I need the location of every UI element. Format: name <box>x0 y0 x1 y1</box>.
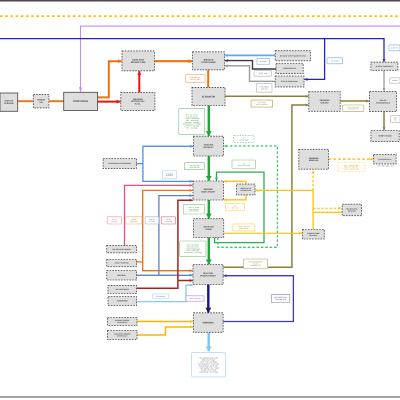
svg-text:QH+B mln: QH+B mln <box>231 207 239 210</box>
box ZASADOWY <box>108 331 138 340</box>
label OSADN <box>244 259 268 269</box>
wire orange branch to przeplywowy <box>143 262 193 271</box>
svg-text:+0.01 mln: +0.01 mln <box>259 72 267 75</box>
wire royal to osadnik <box>143 146 193 163</box>
label G3 <box>180 241 206 256</box>
wire yellow riser to rozkladnia dashed <box>313 207 342 209</box>
box ELEWATOR <box>192 87 225 105</box>
box REAKTOR_PGNB <box>194 219 224 238</box>
wire orange kraty to beztlenowy <box>137 190 193 262</box>
box ZB_RETEN <box>121 92 155 110</box>
svg-text:0.2/4 mln: 0.2/4 mln <box>165 220 172 223</box>
box ANTYSPIENIACZ <box>108 285 137 293</box>
svg-text:BIOGAZU: BIOGAZU <box>309 159 319 162</box>
svg-text:MOCZNIK: MOCZNIK <box>117 274 126 277</box>
box ZB_BEZTLENOWY <box>193 181 224 200</box>
box OSADNIK <box>194 136 224 156</box>
box REAKTOR_PRZEP <box>193 265 223 285</box>
wire green recirc loop dashed <box>218 146 278 247</box>
box ZB_BIOGAZU <box>299 149 329 169</box>
label 10m78 <box>232 160 255 169</box>
label L_pink <box>107 217 121 224</box>
svg-text:48 m PR mln: 48 m PR mln <box>190 166 200 169</box>
label G_big <box>179 108 205 134</box>
wire pink calosciowe to beztlenowy <box>125 185 193 245</box>
wire green recirc loop solid <box>215 172 264 243</box>
label wariant <box>390 78 400 83</box>
top border bar <box>0 0 400 2</box>
wire maroon branch to przeplywowy <box>178 280 193 282</box>
svg-text:KOGENERACJA: KOGENERACJA <box>378 158 392 161</box>
wire orange dzialania to biezace <box>154 60 192 62</box>
box KOGENERACJA <box>374 155 397 164</box>
label WU50 <box>186 296 204 301</box>
svg-text:11.3 mln: 11.3 mln <box>331 59 338 62</box>
label ogrzew <box>338 163 365 172</box>
svg-text:8.4 mln: 8.4 mln <box>260 60 266 63</box>
svg-text:POMPOWNIA: POMPOWNIA <box>73 100 89 103</box>
box WIROWKI <box>193 313 223 333</box>
box BIEZACE <box>193 52 225 70</box>
svg-text:BEZTLENOWY: BEZTLENOWY <box>201 190 216 193</box>
box POMIAR <box>33 94 49 108</box>
svg-text:PRZEPŁYWOWY: PRZEPŁYWOWY <box>200 274 217 277</box>
wire sky wirowki down <box>207 332 209 351</box>
wire yellow pgnb to odsiarczanie <box>224 232 302 234</box>
wire orange pompownia to dzialania <box>98 61 122 97</box>
label 11.3mln <box>327 58 343 64</box>
box CALOSCIOWE <box>107 246 137 253</box>
label ECP_G2 <box>184 204 205 214</box>
box INSTALACJA <box>237 184 256 195</box>
label L_red <box>161 217 175 224</box>
box ZB_ORLOW <box>309 92 340 112</box>
wire royal to beztlenowy <box>143 164 193 182</box>
wire sky powietrze to przeplywowy <box>137 285 193 302</box>
wire yellow instalacja to beztlenowy top <box>224 181 246 184</box>
label GW850 <box>186 74 205 82</box>
svg-text:RETENCYJNE: RETENCYJNE <box>131 61 146 64</box>
bottom border rule <box>0 396 400 398</box>
svg-text:STACJA POMPOWA 1: STACJA POMPOWA 1 <box>281 80 298 83</box>
wire green main beztlenowy to pgnb <box>208 200 210 218</box>
wire blue branch to SP1 <box>304 39 324 80</box>
wire yellow riser to ekogaz dashed <box>312 170 314 190</box>
svg-text:10.05 mln: 10.05 mln <box>391 46 398 49</box>
label JAK4874 <box>185 163 205 170</box>
svg-text:11.3 mln: 11.3 mln <box>261 87 268 90</box>
svg-text:10m 78 203 045: 10m 78 203 045 <box>238 164 250 167</box>
label +0.01mln <box>254 71 272 77</box>
box KANALIZACJA <box>276 64 303 74</box>
svg-text:WC każdych: WC każdych <box>156 295 166 298</box>
svg-text:wariant: wariant <box>392 79 398 82</box>
label 100QHB <box>226 203 245 210</box>
box ROZKLADNIA <box>342 204 361 216</box>
wire red pompownia to zbiornik ret <box>98 101 121 103</box>
wire yellow riser to rozkladnia solid <box>313 211 342 213</box>
box UTRZ_RUCHU <box>275 51 310 61</box>
label HSC <box>272 294 290 302</box>
svg-text:POWIETRZE: POWIETRZE <box>117 300 128 303</box>
wire green main elewator to osadnik <box>208 106 210 136</box>
svg-text:CHEMII PŁUK: CHEMII PŁUK <box>240 189 252 192</box>
label sky_big <box>192 353 226 377</box>
svg-text:chlorametal + do 70 mg/l: chlorametal + do 70 mg/l <box>199 370 218 373</box>
wire global yellow dashed rail <box>0 15 400 17</box>
svg-text:BIOGAZU: BIOGAZU <box>309 234 318 237</box>
svg-text:KANALIZACJA: KANALIZACJA <box>283 67 296 70</box>
label L_blue <box>145 217 159 224</box>
wire tan uklad to pompy <box>383 112 385 131</box>
wire royal wspolpraca stub <box>136 163 143 165</box>
box POMPOWNIA <box>64 92 98 110</box>
svg-text:ANTYSPIENIACZ: ANTYSPIENIACZ <box>115 288 129 291</box>
box KWASNY <box>108 318 138 326</box>
box POWIETRZE <box>108 297 137 306</box>
svg-text:1000 mln: 1000 mln <box>130 220 137 223</box>
svg-text:PGNB: PGNB <box>206 228 213 231</box>
label STUDIA <box>162 171 176 179</box>
label 2m2m <box>233 136 254 143</box>
label 16mKCC <box>343 105 364 111</box>
wire maroon antyspieniacz riser <box>137 200 193 288</box>
box KRATY <box>107 260 137 267</box>
svg-text:ŚCIEKÓW: ŚCIEKÓW <box>4 102 14 105</box>
box SP1 <box>275 76 304 87</box>
wire yellow instalacja to beztlenowy bottom <box>224 195 246 200</box>
label WK2mln <box>391 116 400 123</box>
box SP2 <box>371 62 398 70</box>
box ODSIARCZANIE <box>302 230 324 240</box>
wire gray sp1 to biezace <box>225 66 276 82</box>
svg-text:POMPY OSADU: POMPY OSADU <box>378 135 392 138</box>
wire steel mocznik to przeplywowy <box>137 274 193 276</box>
box POMPY_OSADU <box>371 131 399 142</box>
svg-text:KRATY POKRYW: KRATY POKRYW <box>115 262 129 265</box>
box DZIALANIA <box>122 51 154 71</box>
label IT_ELEWAT <box>256 83 272 92</box>
wire green main pgnb to przeplywowy <box>208 238 210 265</box>
wire tan orlow to uklad <box>340 100 369 102</box>
svg-text:ELEWATOR: ELEWATOR <box>202 95 216 98</box>
wire gray sp2 to uklad <box>383 70 385 91</box>
svg-text:UM: UM <box>40 101 43 104</box>
svg-text:WSTĘPNY: WSTĘPNY <box>203 146 214 149</box>
svg-text:BIOGAZU: BIOGAZU <box>348 210 357 213</box>
svg-text:100 mln: 100 mln <box>111 220 117 223</box>
wire orange inflow 2 <box>49 100 64 102</box>
wire navy wirowki to przeplywowy <box>223 276 293 322</box>
svg-text:CAŁOŚCIOWE AWARIE: CAŁOŚCIOWE AWARIE <box>112 248 132 251</box>
wire dark kanalizacja to biezace <box>225 61 276 69</box>
box WSPOLPRACA <box>103 159 136 169</box>
box DOPLYW <box>0 93 18 111</box>
svg-text:TBI + 988 + 009 + 200: TBI + 988 + 009 + 200 <box>378 164 394 167</box>
svg-text:W. GŁ.: W. GŁ. <box>135 102 142 105</box>
wire amber zasadowy to wirowki <box>137 327 193 335</box>
label WCkazdych <box>153 294 169 299</box>
label 8.4mln <box>257 58 270 64</box>
wire orange inflow 1 <box>18 100 34 102</box>
svg-text:STACJA POMPOWA 2: STACJA POMPOWA 2 <box>376 65 393 68</box>
wire navy przeplywowy to wirowki <box>207 285 209 313</box>
box UKLAD_KOGEN <box>370 91 397 111</box>
wire global purple rail <box>81 26 400 92</box>
wire orange biezace to elewator <box>207 70 209 88</box>
svg-text:KPK 2018/9/35: KPK 2018/9/35 <box>256 103 267 106</box>
wire yellow riser to instalacja <box>255 189 313 191</box>
svg-text:2.7 mln: 2.7 mln <box>149 220 155 223</box>
wire red zbiornik ret to dzialania <box>138 71 140 92</box>
svg-text:KLIMATU: KLIMATU <box>166 174 174 177</box>
svg-text:KOGENERACJI: KOGENERACJI <box>376 101 390 104</box>
wire amber kwasny to wirowki <box>137 321 193 323</box>
wire tan elewator to orlow <box>225 95 309 97</box>
svg-text:WIRÓWKI: WIRÓWKI <box>203 320 214 324</box>
label GRMT <box>233 224 255 231</box>
svg-text:2M (0.4 mln): 2M (0.4 mln) <box>190 78 200 81</box>
wire sky utrzymanie to biezace <box>225 54 276 56</box>
svg-text:BIEŻĄCE UTRZYMANIE RUCHU: BIEŻĄCE UTRZYMANIE RUCHU <box>280 54 306 57</box>
wire green main osadnik to beztlenowy <box>208 156 210 181</box>
wire global blue rail <box>0 39 384 62</box>
wire steel branch to beztlenowy <box>159 196 193 276</box>
wire tan osad riser <box>223 105 308 267</box>
box MOCZNIK <box>107 271 137 281</box>
wire yellow ekogaz to kogeneracja dashed <box>329 158 374 160</box>
svg-text:ORŁÓW: ORŁÓW <box>321 101 329 104</box>
label 20TGAD <box>251 100 273 107</box>
wire yellow biogaz riser <box>312 190 314 229</box>
svg-text:UTRZYMANIE: UTRZYMANIE <box>201 61 216 64</box>
label L_orange <box>125 217 142 224</box>
label 10.05mln <box>389 45 400 51</box>
